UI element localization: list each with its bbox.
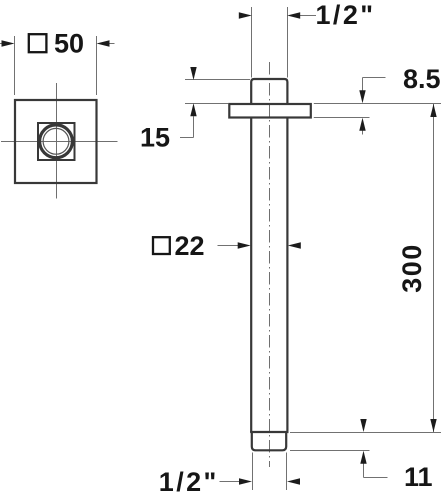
dim 8.5: lower arrowhead bbox=[359, 118, 365, 131]
dim 8.5: flange-bottom extension line right bbox=[314, 117, 370, 119]
svg-text:15: 15 bbox=[140, 123, 170, 153]
dim 1/2 top: right tail bbox=[300, 15, 316, 17]
dim 8.5: vertical tail bbox=[362, 78, 364, 91]
dim 300: bottom arrowhead bbox=[430, 419, 436, 432]
end cap bbox=[252, 432, 286, 450]
dim 300: dimension line bbox=[433, 104, 435, 432]
dim 15: upper arrowhead bbox=[190, 67, 196, 80]
dim 8.5: lower stub bbox=[362, 131, 364, 135]
dim 15: lower arrowhead bbox=[190, 103, 196, 116]
dim 1/2 bottom: leader bbox=[220, 481, 240, 483]
dim 11: upper arrowhead bbox=[360, 419, 366, 432]
dim 15: horizontal leader bbox=[180, 137, 194, 139]
svg-text:50: 50 bbox=[54, 29, 84, 59]
front view plate fill bbox=[15, 100, 97, 183]
front view inner square bbox=[38, 123, 75, 160]
svg-text:8.5: 8.5 bbox=[403, 64, 441, 94]
dim 22: leader line bbox=[218, 245, 239, 247]
svg-text:300: 300 bbox=[397, 243, 427, 293]
tube fill bbox=[251, 118, 287, 433]
svg-text:1/2": 1/2" bbox=[316, 0, 376, 30]
dim 15: vertical leader bbox=[193, 116, 195, 137]
fills bbox=[15, 79, 311, 450]
square symbol for dim 22 bbox=[153, 237, 170, 254]
dim 8.5: flange-top extension line right bbox=[314, 103, 441, 105]
svg-text:11: 11 bbox=[404, 462, 433, 492]
dim 50: right arrowhead bbox=[97, 40, 110, 46]
dim 22: right arrowhead bbox=[288, 242, 301, 248]
svg-text:1/2": 1/2" bbox=[159, 467, 219, 497]
dim 11: horizontal leader bbox=[364, 477, 388, 479]
dim 11: cap-top extension line right bbox=[290, 432, 441, 434]
flange fill bbox=[229, 104, 310, 118]
dim 15: nut-top extension line bbox=[185, 79, 250, 81]
dim 1/2 top: right extension line bbox=[287, 7, 289, 78]
dim 1/2 bottom: left extension line bbox=[252, 453, 254, 491]
svg-text:22: 22 bbox=[175, 231, 205, 261]
dim 50: left tail bbox=[0, 43, 3, 45]
dim 1/2 top: left extension line bbox=[251, 7, 253, 78]
tube left wall bbox=[250, 118, 252, 433]
dim 22: left arrowhead bbox=[238, 242, 251, 248]
dim 50: right tail bbox=[109, 43, 115, 45]
dim 1/2 top: left arrowhead bbox=[239, 12, 252, 18]
dim 1/2 top: right arrowhead bbox=[287, 12, 300, 18]
dim 8.5: upper arrowhead bbox=[359, 90, 365, 103]
centerline vertical (side view, dash-dot) bbox=[269, 62, 271, 467]
dim 8.5: horizontal tail bbox=[363, 77, 386, 79]
dim 50: left extension line bbox=[14, 36, 16, 95]
nut fill bbox=[251, 79, 287, 104]
dim 1/2 bottom: left arrowhead bbox=[239, 478, 252, 484]
centerline vertical (front view) bbox=[56, 83, 58, 199]
front view inner circle bbox=[43, 128, 69, 154]
component outlines bbox=[15, 79, 311, 450]
dim 11: lower arrowhead bbox=[360, 451, 366, 464]
nut (top thread connector) bbox=[251, 79, 287, 104]
dim 1/2 bottom: right extension line bbox=[286, 453, 288, 491]
dim 11: cap-bottom extension line right bbox=[290, 450, 370, 452]
dim 1/2 bottom: right arrowhead bbox=[287, 478, 300, 484]
dim 15: flange-top extension line left bbox=[185, 103, 228, 105]
tube right wall bbox=[286, 118, 288, 433]
dim 50: left arrowhead bbox=[2, 40, 15, 46]
centerline horizontal (front view) bbox=[1, 141, 118, 143]
cap top line bbox=[250, 431, 288, 433]
square symbol for dim 50 bbox=[29, 34, 47, 52]
dim 50: right extension line bbox=[96, 36, 98, 95]
front view outer circle bbox=[40, 125, 73, 158]
front view outer square bbox=[15, 100, 97, 183]
dim 11: vertical leader bbox=[363, 464, 365, 478]
flange (ceiling plate, side view) bbox=[229, 104, 310, 118]
dim 300: top arrowhead bbox=[430, 104, 436, 117]
end cap fill bbox=[252, 432, 286, 450]
